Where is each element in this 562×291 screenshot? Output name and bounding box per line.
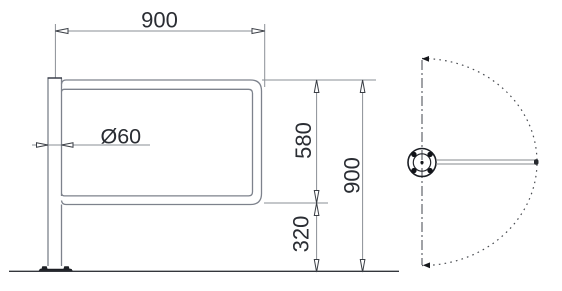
dimension line 900 (top) (55, 30, 264, 32)
centerline of post (top view, dash-dot) (421, 60, 423, 265)
flange outer circle (408, 149, 436, 177)
arc direction arrow top (422, 56, 429, 62)
bolt hole bottom-left (411, 168, 416, 173)
extension line top (rail top to vertical dims) (262, 79, 376, 81)
svg-text:Ø60: Ø60 (100, 124, 141, 148)
arm bottom edge (top view) (436, 163, 535, 165)
post top cap (48, 77, 63, 79)
bolt hole top-left (411, 152, 416, 157)
gate frame outer outline (62, 80, 262, 205)
arrow up tip at rail top (900 v) (360, 80, 365, 93)
arrow up tip at 203 (320) (314, 203, 319, 216)
Ø60 dimension line (32, 144, 150, 146)
swing arc (dotted semicircle) (422, 59, 537, 266)
arrow left of 900 dim (55, 29, 68, 34)
flange inner circle (413, 154, 430, 171)
arrow down tip at ground (900 v) (360, 260, 365, 273)
flange center dot (420, 161, 423, 164)
extension line left of 900 width dim (54, 24, 56, 78)
gate frame inner outline (62, 89, 253, 196)
arrow right of Ø60 (62, 143, 74, 148)
extension line right of 900 width dim (264, 24, 266, 87)
base plate with anchor bolts (39, 266, 74, 271)
bolt hole top-right (427, 152, 432, 157)
arc direction arrow bottom (423, 262, 430, 268)
svg-text:900: 900 (141, 8, 178, 33)
extension line at bottom rail level (264, 202, 328, 204)
dimension line 580/320 (316, 80, 318, 272)
ground line (9, 270, 399, 272)
arrow left of Ø60 (37, 143, 49, 148)
post (48, 79, 62, 267)
arm top edge (top view) (436, 159, 535, 161)
arrow down tip at 203 (580) (314, 191, 319, 204)
dimension line 900 (vertical) (362, 80, 364, 272)
arrow right of 900 dim (252, 29, 265, 34)
svg-text:580: 580 (291, 122, 316, 159)
bolt hole bottom-right (427, 168, 432, 173)
svg-text:900: 900 (340, 157, 365, 194)
arrow down tip at ground (320) (314, 260, 319, 273)
arm end cap (534, 159, 539, 165)
arrow up tip at rail top (580) (314, 80, 319, 93)
svg-text:320: 320 (289, 216, 314, 253)
